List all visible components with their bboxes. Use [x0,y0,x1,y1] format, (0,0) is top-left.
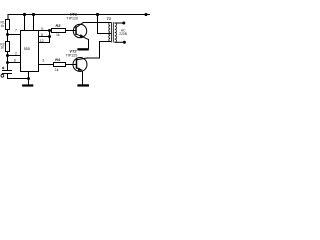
wire R4 to VT2 base [66,64,77,66]
svg-text:R3: R3 [56,23,62,28]
IC U1 box [21,31,39,72]
node pin2 [6,54,9,57]
wire R3 to VT1 base [66,30,77,32]
capacitor C1 curved plate mark [1,74,4,77]
wire R1 to node pin7 [7,30,9,35]
node rail end terminal [144,13,147,16]
ground IC [22,84,33,86]
transformer T1 secondary winding [115,23,117,42]
wire pins bus vertical [49,31,51,43]
wire pin6 [8,62,21,64]
node pin5 junction [48,29,51,32]
svg-text:555: 555 [24,47,30,51]
IC output pin3 stub [39,64,54,66]
wire pin8 stub [39,36,50,38]
ground VT2 [77,84,89,86]
wire VT1 emitter to ground [88,40,90,49]
node pin8 junction [48,35,51,38]
resistor R1 [6,20,10,30]
wire secondary bottom [115,41,124,43]
node pin4/rail [23,13,26,16]
plus sign C1 polarity [2,67,4,69]
capacitor C1 [7,63,9,71]
node center tap / rail [96,13,99,16]
wire VT2 collector to transformer bottom [88,42,111,59]
svg-text:6: 6 [14,59,16,63]
node ground junction [27,77,30,80]
ground VT1 [77,48,88,50]
node pin8t/rail [32,13,35,16]
transistor VT2 [73,58,87,72]
svg-text:TIP125: TIP125 [66,53,78,57]
transformer T1 primary winding [109,23,110,42]
transistor VT1 [73,24,86,37]
svg-text:5: 5 [41,27,43,31]
svg-text:1k: 1k [55,68,59,72]
node secondary bottom terminal [123,41,126,44]
wire pin4 to rail [24,15,26,31]
wire bus to R3 [50,30,52,32]
svg-text:1k: 1k [0,46,4,50]
wire R2 to node pin2 [7,52,9,63]
svg-text:T1: T1 [107,17,111,21]
wire pin12 stub [39,42,50,44]
wire pin8t to rail [33,15,35,31]
wire VT1 collector to transformer top [83,22,110,24]
svg-text:7: 7 [15,29,17,33]
node secondary top terminal [122,22,125,25]
node R1/R2/pin7 [6,33,9,36]
wire top rail +12V [8,15,150,20]
wire C1 to ground node [8,78,29,80]
svg-text:3: 3 [42,59,44,63]
transformer core [111,23,113,43]
wire center tap from rail [98,15,111,34]
wire VT2 emitter to ground [82,71,84,84]
svg-text:1k: 1k [56,33,60,37]
resistor R2 [7,35,9,42]
svg-text:8: 8 [41,33,43,37]
wire secondary top [115,22,124,24]
wire IC pin1 to ground [28,72,30,85]
svg-text:1k: 1k [1,24,5,28]
resistor R4 [54,63,66,67]
resistor R3 [52,29,66,33]
svg-text:R4: R4 [55,57,61,62]
wire pin7 [8,34,21,36]
svg-text:TIP120: TIP120 [66,17,78,21]
svg-text:12: 12 [40,39,44,43]
node pin6 [6,61,9,64]
wire pin5 stub [39,30,50,32]
svg-text:2: 2 [15,52,17,56]
svg-text:220B: 220B [119,32,128,36]
wire pin2 [8,55,21,57]
